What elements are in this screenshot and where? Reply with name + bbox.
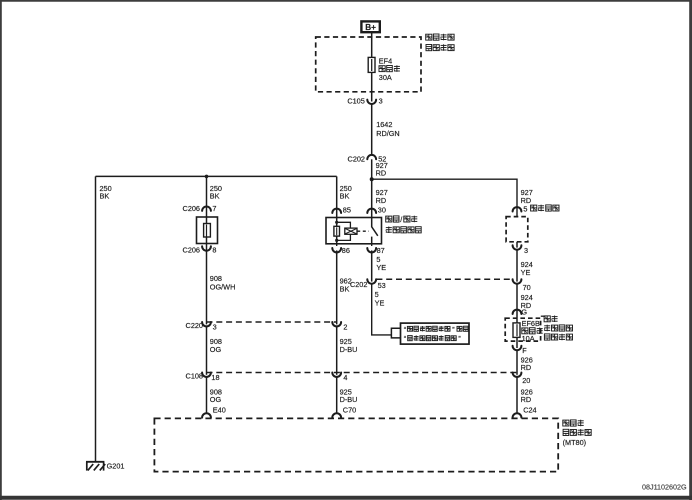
svg-text:RD: RD — [521, 363, 532, 372]
connector junction pin 70 — [513, 279, 531, 292]
relay switch contact — [372, 218, 378, 244]
connector C105 pin 3 — [347, 97, 382, 106]
ignition switch pin 3 — [513, 245, 528, 255]
svg-text:18: 18 — [211, 373, 219, 382]
wire 250 BK left drop to G201 — [96, 176, 112, 461]
wire 1642 RD/GN — [372, 104, 400, 155]
svg-text:C108: C108 — [186, 371, 203, 380]
svg-text:G201: G201 — [107, 461, 125, 470]
svg-text:87: 87 — [377, 246, 385, 255]
relay coil — [334, 218, 351, 244]
svg-text:BK: BK — [210, 192, 220, 201]
label ignition switch — [531, 205, 559, 212]
junction ground bus at column B — [205, 175, 209, 179]
svg-text:RD: RD — [376, 168, 387, 177]
wire 925 D-BU lower — [337, 377, 358, 414]
connector C206 pin 8 — [183, 246, 217, 255]
relay mechanical link dashed — [357, 230, 369, 232]
label EF4 30A — [379, 56, 400, 82]
wire 926 RD lower — [517, 377, 533, 414]
connector C108 pin 4 — [332, 373, 347, 382]
svg-text:C24: C24 — [523, 405, 536, 414]
svg-text:D-BU: D-BU — [340, 345, 358, 354]
reference box bracket — [391, 328, 400, 338]
auxiliary fuse box dashed — [505, 318, 540, 341]
svg-text:BK: BK — [340, 192, 350, 201]
label engine control module MT80 — [563, 420, 592, 447]
fuse box pin F — [513, 346, 528, 355]
svg-text:C202: C202 — [350, 280, 367, 289]
svg-text:30: 30 — [378, 205, 386, 214]
connector C206 pin 7 — [183, 204, 217, 213]
svg-text:YE: YE — [521, 268, 531, 277]
svg-text:20: 20 — [522, 376, 530, 385]
wire 250 BK column B — [207, 176, 222, 217]
svg-text:8: 8 — [212, 246, 216, 255]
connector C24 to ECM — [513, 405, 537, 417]
wire 962 BK from pin 86 — [337, 244, 352, 325]
label engine fuse box — [426, 34, 454, 51]
svg-text:OG/WH: OG/WH — [210, 282, 236, 291]
connector C202 pin 53 — [350, 279, 386, 290]
wire 927 RD to relay pin 30 — [372, 179, 388, 217]
svg-text:EF6B: EF6B — [522, 319, 540, 328]
connector E40 to ECM — [202, 405, 226, 417]
svg-text:(MT80): (MT80) — [563, 438, 587, 447]
dashed connector line C202 53 to 70 — [376, 278, 512, 280]
svg-text:G: G — [521, 307, 527, 316]
svg-text:C70: C70 — [343, 405, 356, 414]
connector C220 pin 3 — [186, 321, 217, 331]
svg-text:BK: BK — [340, 285, 350, 294]
svg-text:E40: E40 — [213, 405, 226, 414]
fuse box pin G — [513, 307, 528, 316]
svg-text:4: 4 — [343, 373, 347, 382]
engine-compartment fuse box (dashed) — [316, 37, 421, 92]
relay solenoid symbol — [345, 228, 357, 234]
connector junction pin 20 — [513, 373, 531, 386]
ground bus wire 250 BK horizontal — [96, 175, 337, 177]
wire 5 YE to reference box — [372, 284, 392, 335]
svg-text:D-BU: D-BU — [340, 395, 358, 404]
wire 924 RD — [517, 284, 533, 318]
svg-text:7: 7 — [212, 204, 216, 213]
svg-text:70: 70 — [523, 283, 531, 292]
svg-text:85: 85 — [343, 205, 351, 214]
svg-text:30A: 30A — [379, 73, 392, 82]
svg-text:RD: RD — [376, 196, 387, 205]
engine control module box dashed — [154, 418, 558, 471]
svg-text:B+: B+ — [365, 23, 376, 32]
svg-text:5: 5 — [523, 204, 527, 213]
svg-text:RD: RD — [521, 395, 532, 404]
junction on 927 RD — [370, 177, 374, 181]
connector C202 pin 52 — [348, 154, 387, 163]
wire 925 D-BU mid — [337, 326, 358, 374]
wire 927 RD top bus to ignition switch — [372, 179, 533, 216]
park/neutral switch relay box — [326, 218, 382, 244]
wire 926 RD upper — [517, 341, 533, 375]
ground G201 — [86, 461, 124, 470]
svg-text:C202: C202 — [348, 154, 365, 163]
dashed connector line C220 — [207, 321, 337, 323]
svg-text:BK: BK — [100, 192, 110, 201]
dashed connector line C108 — [207, 372, 518, 374]
fuse EF6B 10A — [513, 318, 520, 341]
svg-text:OG: OG — [210, 395, 222, 404]
wire 927 RD to junction — [372, 159, 388, 179]
relay pin 87 — [367, 246, 384, 255]
connector C108 pin 18 — [186, 371, 220, 381]
svg-text:OG: OG — [210, 345, 222, 354]
svg-text:C220: C220 — [186, 321, 203, 330]
svg-text:F: F — [522, 346, 527, 355]
svg-text:YE: YE — [376, 263, 386, 272]
svg-text:3: 3 — [379, 97, 383, 106]
svg-text:C105: C105 — [347, 97, 364, 106]
svg-text:86: 86 — [342, 246, 350, 255]
fuse EF4 30A — [368, 57, 375, 72]
svg-text:EF4: EF4 — [379, 56, 392, 65]
svg-text:3: 3 — [213, 322, 217, 331]
svg-text:10A: 10A — [522, 334, 535, 343]
label EF6B 10A — [522, 319, 543, 343]
svg-text:C206: C206 — [183, 204, 200, 213]
label auxiliary engine fuse box — [541, 316, 573, 341]
relay pin 30 — [367, 205, 386, 214]
relay pin 86 — [332, 246, 350, 255]
wire 5 YE from pin 87 — [372, 244, 387, 282]
label park/neutral switch relay — [386, 215, 422, 233]
svg-text:53: 53 — [378, 281, 386, 290]
svg-text:2: 2 — [343, 322, 347, 331]
wire 908 OG/WH — [207, 244, 236, 325]
document number 08J1102602G — [642, 483, 687, 492]
suppression resistor module at C206 — [197, 217, 218, 244]
wire B+ to fuse EF4 — [371, 32, 373, 57]
svg-text:3: 3 — [524, 246, 528, 255]
wire 250 BK column C to relay — [337, 176, 352, 217]
connector C220 pin 2 — [332, 322, 347, 331]
relay pin 85 — [332, 205, 351, 214]
ignition switch box dashed — [506, 217, 528, 242]
ignition switch pin 5 — [513, 204, 528, 213]
connector C70 to ECM — [332, 405, 356, 417]
wire 908 OG lower — [207, 377, 222, 414]
svg-text:08J1102602G: 08J1102602G — [642, 483, 687, 492]
node B+ battery feed — [361, 21, 379, 32]
wire 924 YE — [517, 242, 533, 282]
svg-text:YE: YE — [375, 298, 385, 307]
wire fuse to C105 — [371, 72, 373, 101]
svg-text:C206: C206 — [183, 246, 200, 255]
reference box start-charging schematic — [401, 323, 470, 344]
wire 908 OG mid — [207, 326, 222, 374]
svg-text:RD/GN: RD/GN — [376, 129, 400, 138]
